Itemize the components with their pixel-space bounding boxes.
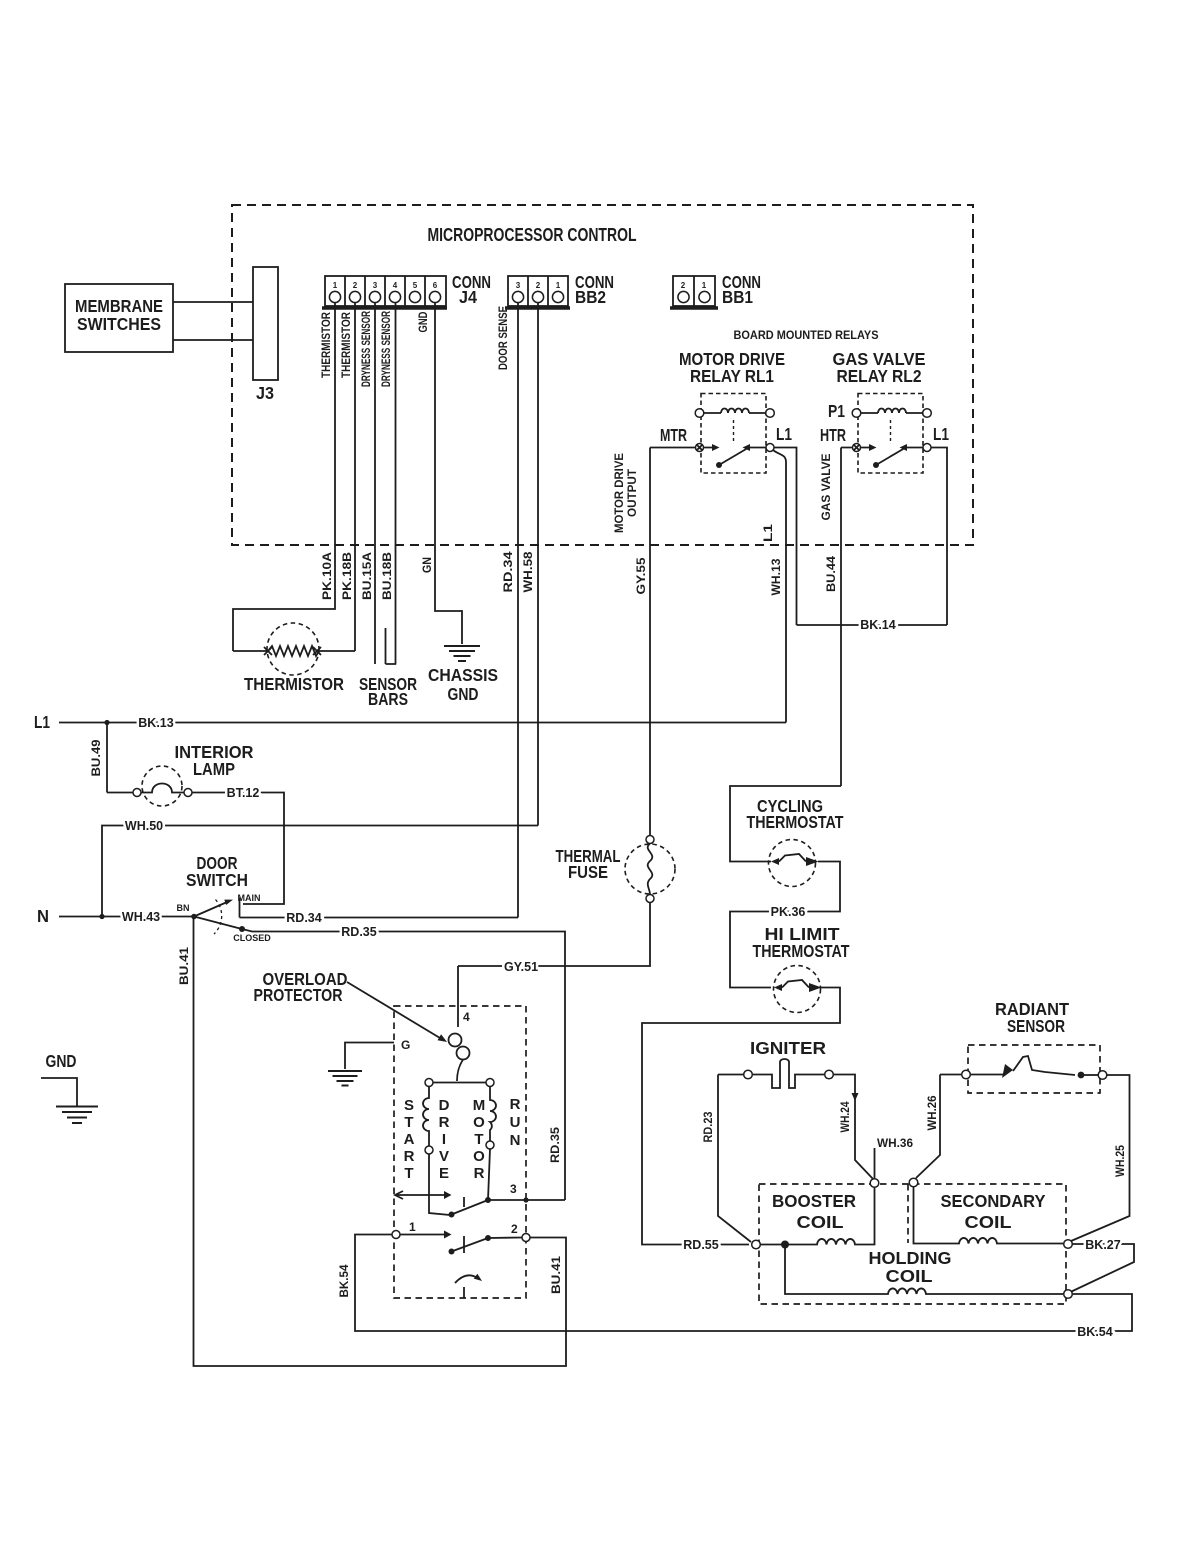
svg-text:WH.26: WH.26 [927, 1096, 939, 1131]
svg-text:BU.49: BU.49 [91, 740, 103, 777]
svg-text:E: E [439, 1165, 449, 1182]
svg-text:WH.50: WH.50 [125, 819, 163, 833]
svg-text:SECONDARY: SECONDARY [941, 1191, 1046, 1211]
svg-text:MAIN: MAIN [238, 893, 261, 903]
svg-text:D: D [439, 1097, 450, 1114]
svg-text:1: 1 [702, 281, 707, 290]
svg-text:BK.13: BK.13 [138, 716, 173, 730]
svg-text:4: 4 [393, 281, 398, 290]
svg-text:BT.12: BT.12 [227, 786, 260, 800]
svg-text:BK.27: BK.27 [1085, 1238, 1120, 1252]
svg-text:BOOSTER: BOOSTER [772, 1191, 856, 1211]
svg-text:O: O [473, 1114, 485, 1131]
svg-text:L1: L1 [776, 424, 792, 444]
svg-text:5: 5 [413, 281, 418, 290]
svg-text:THERMOSTAT: THERMOSTAT [747, 812, 844, 832]
svg-text:BN: BN [177, 903, 190, 913]
svg-text:BU.15A: BU.15A [362, 552, 374, 600]
svg-text:BB2: BB2 [575, 287, 606, 307]
svg-text:CLOSED: CLOSED [233, 933, 271, 943]
svg-text:SWITCH: SWITCH [186, 870, 248, 890]
svg-text:MICROPROCESSOR CONTROL: MICROPROCESSOR CONTROL [428, 225, 637, 245]
svg-text:GND: GND [46, 1051, 77, 1071]
svg-text:M: M [473, 1097, 486, 1114]
svg-text:1: 1 [409, 1220, 416, 1234]
svg-text:A: A [404, 1131, 415, 1148]
svg-text:BK.54: BK.54 [339, 1264, 351, 1298]
svg-text:2: 2 [536, 281, 541, 290]
svg-text:RD.55: RD.55 [683, 1238, 718, 1252]
svg-text:R: R [439, 1114, 450, 1131]
svg-text:BK.54: BK.54 [1077, 1325, 1112, 1339]
svg-text:RD.35: RD.35 [550, 1126, 562, 1163]
svg-text:R: R [404, 1148, 415, 1165]
svg-text:DOOR SENSE: DOOR SENSE [498, 306, 510, 370]
svg-text:WH.25: WH.25 [1115, 1144, 1127, 1177]
svg-text:T: T [474, 1131, 483, 1148]
svg-text:RD.35: RD.35 [341, 925, 376, 939]
svg-text:V: V [439, 1148, 449, 1165]
svg-text:BU.18B: BU.18B [382, 552, 394, 600]
svg-text:FUSE: FUSE [568, 862, 608, 882]
svg-text:1: 1 [556, 281, 561, 290]
svg-text:DRYNESS SENSOR: DRYNESS SENSOR [381, 311, 393, 387]
svg-text:T: T [404, 1114, 413, 1131]
svg-text:RELAY RL1: RELAY RL1 [690, 366, 774, 386]
svg-text:N: N [510, 1132, 521, 1149]
svg-text:L1: L1 [34, 712, 50, 732]
svg-text:U: U [510, 1114, 521, 1131]
svg-text:COIL: COIL [886, 1266, 933, 1286]
svg-text:6: 6 [433, 281, 438, 290]
svg-text:BU.41: BU.41 [551, 1255, 563, 1294]
svg-text:N: N [37, 906, 49, 926]
svg-text:GND: GND [418, 312, 430, 333]
svg-text:RD.34: RD.34 [503, 551, 515, 593]
svg-text:WH.24: WH.24 [840, 1101, 852, 1133]
svg-text:MOTOR DRIVE: MOTOR DRIVE [614, 453, 626, 533]
svg-text:OUTPUT: OUTPUT [627, 469, 639, 517]
svg-text:MTR: MTR [660, 425, 687, 445]
svg-text:G: G [401, 1038, 410, 1052]
svg-text:BARS: BARS [368, 689, 408, 709]
svg-text:BK.14: BK.14 [860, 618, 895, 632]
svg-text:SENSOR: SENSOR [1007, 1016, 1065, 1036]
svg-text:GY.55: GY.55 [636, 557, 648, 595]
svg-text:COIL: COIL [965, 1212, 1012, 1232]
svg-text:2: 2 [353, 281, 358, 290]
svg-text:GY.51: GY.51 [504, 960, 538, 974]
svg-text:COIL: COIL [797, 1212, 844, 1232]
svg-text:WH.13: WH.13 [771, 559, 783, 596]
svg-text:2: 2 [511, 1222, 518, 1236]
svg-text:WH.58: WH.58 [523, 551, 535, 593]
svg-text:RELAY RL2: RELAY RL2 [837, 366, 922, 386]
svg-text:MEMBRANE: MEMBRANE [75, 296, 163, 316]
svg-text:4: 4 [463, 1010, 470, 1024]
svg-text:IGNITER: IGNITER [750, 1038, 826, 1058]
svg-text:GN: GN [422, 557, 434, 573]
svg-text:3: 3 [373, 281, 378, 290]
svg-text:WH.43: WH.43 [122, 910, 160, 924]
svg-text:THERMISTOR: THERMISTOR [321, 311, 333, 378]
svg-text:S: S [404, 1097, 414, 1114]
svg-text:P1: P1 [828, 401, 845, 421]
svg-text:WH.36: WH.36 [877, 1138, 913, 1150]
svg-text:PROTECTOR: PROTECTOR [254, 985, 343, 1005]
svg-text:HTR: HTR [820, 425, 846, 445]
svg-text:O: O [473, 1148, 485, 1165]
svg-text:THERMOSTAT: THERMOSTAT [753, 941, 850, 961]
svg-text:LAMP: LAMP [193, 759, 235, 779]
svg-text:I: I [442, 1131, 446, 1148]
svg-text:BU.41: BU.41 [179, 946, 191, 985]
svg-text:J4: J4 [459, 287, 477, 307]
svg-text:3: 3 [510, 1182, 517, 1196]
svg-text:RD.23: RD.23 [703, 1112, 715, 1143]
svg-text:RD.34: RD.34 [286, 911, 321, 925]
svg-text:T: T [404, 1165, 413, 1182]
svg-text:THERMISTOR: THERMISTOR [341, 311, 353, 378]
svg-text:BU.44: BU.44 [826, 555, 838, 592]
svg-text:PK.18B: PK.18B [342, 552, 354, 600]
svg-text:PK.36: PK.36 [771, 905, 806, 919]
svg-text:THERMISTOR: THERMISTOR [244, 674, 344, 694]
svg-text:GND: GND [448, 684, 479, 704]
svg-text:R: R [474, 1165, 485, 1182]
svg-text:3: 3 [516, 281, 521, 290]
svg-text:HOLDING: HOLDING [869, 1248, 952, 1268]
svg-text:BOARD MOUNTED RELAYS: BOARD MOUNTED RELAYS [734, 330, 879, 342]
svg-text:BB1: BB1 [722, 287, 753, 307]
svg-text:DRYNESS SENSOR: DRYNESS SENSOR [361, 311, 373, 387]
svg-text:L1: L1 [763, 523, 775, 542]
svg-text:R: R [510, 1096, 521, 1113]
svg-text:L1: L1 [933, 424, 949, 444]
svg-text:2: 2 [681, 281, 686, 290]
svg-text:1: 1 [333, 281, 338, 290]
svg-text:SWITCHES: SWITCHES [77, 314, 161, 334]
svg-text:CHASSIS: CHASSIS [428, 665, 498, 685]
svg-text:GAS VALVE: GAS VALVE [821, 453, 833, 520]
svg-text:J3: J3 [256, 383, 274, 403]
svg-text:PK.10A: PK.10A [322, 552, 334, 600]
